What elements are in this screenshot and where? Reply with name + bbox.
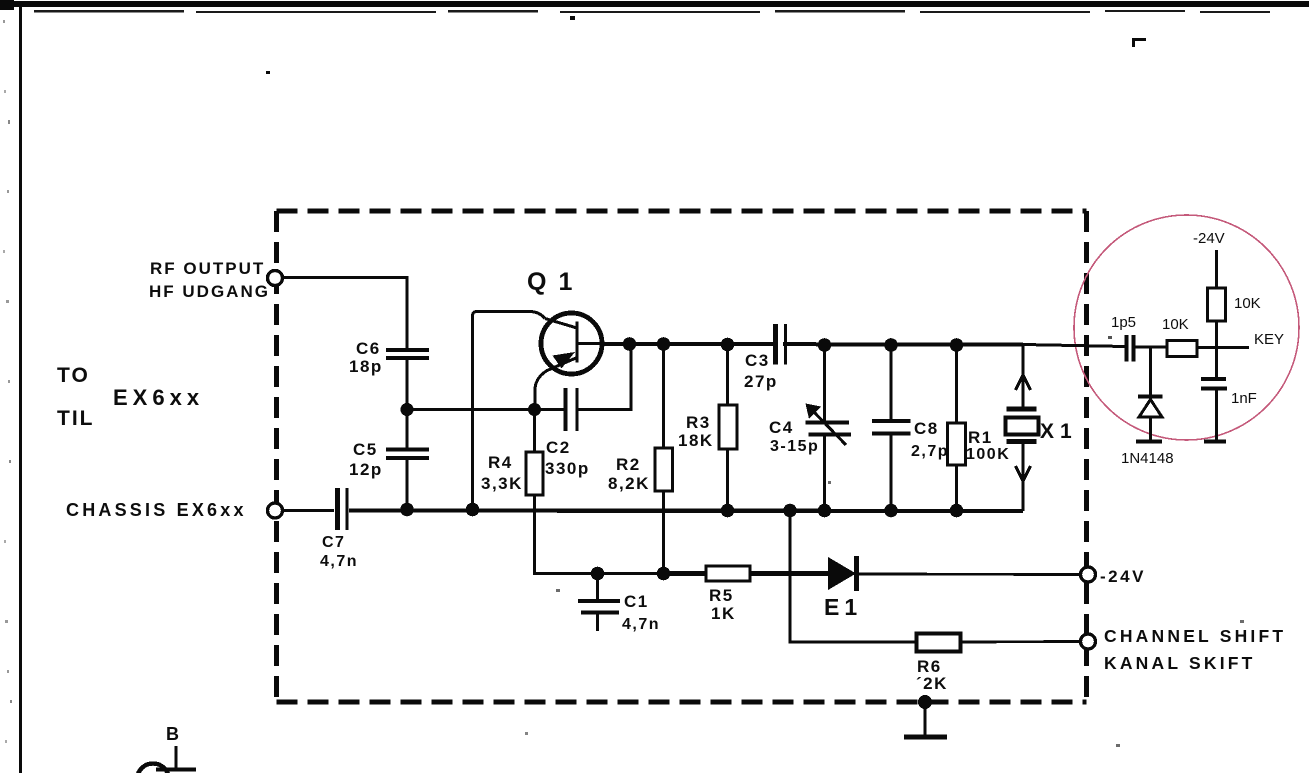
- svg-text:TIL: TIL: [57, 407, 95, 430]
- svg-text:4,7n: 4,7n: [320, 553, 358, 570]
- svg-text:TO: TO: [57, 364, 90, 387]
- svg-text:EX6xx: EX6xx: [113, 385, 204, 410]
- svg-text:RF OUTPUT: RF OUTPUT: [150, 259, 265, 278]
- capacitor 1nF: [1201, 348, 1257, 442]
- svg-text:HF UDGANG: HF UDGANG: [149, 282, 270, 301]
- resistor 10K series (KEY): [1162, 316, 1197, 357]
- capacitor C2 330p: [535, 344, 632, 478]
- node C4 bottom on rail: [818, 504, 832, 518]
- node C2 on rail: [623, 337, 637, 351]
- diode 1N4148: [1121, 347, 1174, 467]
- svg-text:´2K: ´2K: [916, 674, 948, 693]
- crystal X1: [1006, 345, 1078, 512]
- wire base to ground: [473, 312, 546, 510]
- svg-text:-24V: -24V: [1100, 567, 1146, 586]
- svg-text:2,7p: 2,7p: [911, 443, 949, 460]
- capacitor C8 2,7p: [872, 345, 949, 511]
- wire collector rail: [602, 342, 1023, 347]
- svg-text:1K: 1K: [711, 604, 736, 623]
- svg-text:C6: C6: [356, 339, 381, 358]
- svg-text:10K: 10K: [1162, 316, 1189, 333]
- capacitor C6 18p: [349, 339, 429, 376]
- wire C5 to chassis rail: [406, 458, 409, 510]
- svg-text:C5: C5: [353, 440, 378, 459]
- svg-text:3,3K: 3,3K: [481, 474, 523, 493]
- node RF OUTPUT terminal: [268, 271, 283, 286]
- svg-text:KEY: KEY: [1254, 331, 1284, 348]
- resistor R6 2K: [916, 634, 1081, 694]
- resistor 10K pullup: [1208, 288, 1261, 348]
- svg-text:18K: 18K: [678, 431, 714, 450]
- annotation pink circle: [1074, 215, 1299, 440]
- svg-text:E1: E1: [824, 594, 862, 620]
- wire chassis node to C7: [283, 509, 334, 512]
- capacitor C7 4,7n: [320, 488, 358, 570]
- svg-text:Q1: Q1: [527, 268, 584, 296]
- svg-text:R3: R3: [686, 413, 711, 432]
- svg-text:8,2K: 8,2K: [608, 474, 650, 493]
- resistor R4 3,3K: [481, 410, 543, 574]
- svg-text:C4: C4: [769, 418, 794, 437]
- svg-text:R4: R4: [488, 453, 513, 472]
- node R1 top on rail: [950, 338, 964, 352]
- wire chassis ground rail: [349, 508, 1023, 513]
- label CHASSIS EX6xx: [66, 500, 247, 520]
- resistor R3 18K: [678, 344, 737, 511]
- svg-text:CHASSIS EX6xx: CHASSIS EX6xx: [66, 500, 247, 520]
- node emitter junction: [528, 403, 541, 416]
- wire Q1 emitter lead: [535, 371, 547, 410]
- wire RF output to C6 top: [283, 278, 407, 349]
- wire KEY line through annotation: [1023, 331, 1284, 348]
- svg-text:-24V: -24V: [1193, 230, 1225, 247]
- stray scan mark top right: [266, 16, 1244, 747]
- node C4 top on rail: [818, 338, 832, 352]
- node -24V terminal: [1081, 567, 1146, 586]
- scan page top edge bar: [0, 0, 1309, 13]
- svg-text:CHANNEL SHIFT: CHANNEL SHIFT: [1104, 626, 1286, 646]
- svg-text:1nF: 1nF: [1231, 390, 1257, 407]
- label RF OUTPUT: [149, 259, 270, 301]
- resistor R5 1K: [664, 566, 831, 623]
- svg-text:10K: 10K: [1234, 295, 1261, 312]
- node C1 junction: [591, 567, 605, 581]
- node R3 on rail bottom: [721, 504, 735, 518]
- node R2 on rail: [657, 337, 671, 351]
- node C5 on rail: [400, 503, 414, 517]
- node R2 on keying line: [657, 567, 671, 581]
- svg-text:B: B: [166, 724, 181, 744]
- svg-text:18p: 18p: [349, 357, 383, 376]
- node R6 branch on rail: [783, 504, 797, 518]
- capacitor C1 4,7n: [578, 574, 660, 634]
- svg-text:330p: 330p: [545, 459, 590, 478]
- scan page left edge line: [3, 4, 21, 773]
- svg-text:X1: X1: [1040, 420, 1078, 443]
- svg-text:C2: C2: [546, 438, 571, 457]
- node C8 top on rail: [884, 338, 898, 352]
- svg-text:C3: C3: [745, 351, 770, 370]
- svg-text:KANAL SKIFT: KANAL SKIFT: [1104, 653, 1256, 673]
- node base wire on rail: [466, 503, 480, 517]
- svg-text:1p5: 1p5: [1111, 314, 1136, 331]
- svg-text:4,7n: 4,7n: [622, 616, 660, 633]
- capacitor C4 3-15p trimmer: [769, 345, 851, 511]
- wire C6/C5 junction to emitter: [407, 408, 534, 411]
- node C8 bottom on rail: [884, 504, 898, 518]
- resistor R1 100K: [948, 345, 1011, 511]
- capacitor 1p5: [1111, 314, 1136, 362]
- svg-text:R2: R2: [616, 455, 641, 474]
- node C5/C6 junction: [400, 403, 413, 416]
- wire keying line from R4 to R5: [535, 572, 707, 574]
- node CHANNEL SHIFT terminal: [1081, 626, 1287, 673]
- svg-text:C1: C1: [624, 592, 649, 611]
- diode E1: [824, 556, 1081, 620]
- partial transistor symbol bottom left: [137, 724, 196, 773]
- svg-text:R5: R5: [709, 586, 734, 605]
- label TO TIL EX6xx: [57, 364, 204, 430]
- svg-text:27p: 27p: [744, 372, 778, 391]
- svg-text:C8: C8: [914, 419, 939, 438]
- svg-text:1N4148: 1N4148: [1121, 450, 1174, 467]
- transistor Q1: [527, 268, 604, 374]
- wire -24V supply drop: [1193, 230, 1225, 288]
- svg-text:R1: R1: [968, 428, 993, 447]
- dashed enclosure box: [277, 211, 1087, 702]
- svg-text:100K: 100K: [966, 446, 1010, 463]
- resistor R2 8,2K: [608, 344, 673, 574]
- wire C6 to C5: [406, 358, 409, 449]
- svg-text:C7: C7: [322, 534, 345, 551]
- svg-text:12p: 12p: [349, 460, 383, 479]
- wire R6 branch from rail: [790, 511, 916, 642]
- capacitor C3 27p (series in rail): [744, 324, 786, 391]
- svg-text:3-15p: 3-15p: [770, 438, 819, 455]
- node chassis terminal: [268, 503, 283, 518]
- capacitor C5 12p: [349, 440, 429, 479]
- node R3 on rail: [721, 338, 735, 352]
- node R1 bottom on rail: [950, 504, 964, 518]
- ground symbol: [904, 695, 947, 737]
